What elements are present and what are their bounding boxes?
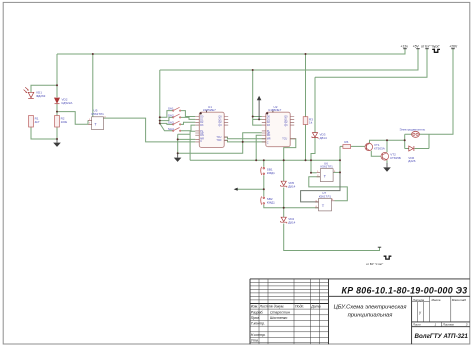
counter U1	[199, 112, 224, 147]
wire node C to node D to U2 pin 11	[178, 133, 262, 154]
wire VT2 emitter to ground	[386, 160, 388, 163]
svg-text:Шостенко: Шостенко	[270, 316, 287, 320]
svg-text:SA2: SA2	[168, 113, 174, 117]
svg-text:Дата: Дата	[310, 305, 320, 309]
svg-text:Д814: Д814	[288, 220, 295, 224]
svg-text:DN: DN	[267, 134, 271, 137]
svg-text:Д226: Д226	[408, 159, 415, 163]
svg-text:КТ503А: КТ503А	[374, 146, 386, 150]
svg-text:Лист: Лист	[412, 323, 421, 327]
wire +26V rail	[429, 49, 453, 135]
svg-text:C: C	[267, 141, 269, 144]
wire VT1 emitter to VT2 base	[371, 151, 381, 157]
junction U2 pin 15	[252, 116, 254, 118]
wire U2 pin 15 tap	[253, 116, 262, 118]
svg-text:у: у	[418, 311, 421, 315]
svg-text:КМД1: КМД1	[267, 171, 275, 175]
button SB1	[261, 167, 265, 175]
svg-text:DN: DN	[200, 134, 204, 137]
node B junction	[56, 111, 58, 113]
photodiode VD1	[24, 87, 34, 98]
wire node B to U5 input	[57, 112, 88, 125]
svg-text:100k: 100k	[61, 120, 68, 124]
wire U1 TCU to U2 UP	[224, 137, 266, 139]
wire motor node right	[428, 134, 430, 148]
svg-text:4k7: 4k7	[35, 120, 40, 124]
svg-text:КТ815Б: КТ815Б	[390, 156, 401, 160]
svg-text:+26V: +26V	[449, 44, 458, 48]
wire U2 pin 1 tap	[253, 118, 262, 120]
wire motor node left	[404, 134, 406, 148]
pin stubs U6	[317, 173, 321, 177]
wire R1 bottom	[31, 127, 57, 139]
svg-text:Изм.: Изм.	[251, 305, 258, 309]
pin stubs U7	[315, 201, 335, 208]
svg-text:+12v: +12v	[401, 44, 409, 48]
svg-text:Масса: Масса	[432, 298, 441, 302]
svg-text:К561ТЛ1: К561ТЛ1	[319, 194, 332, 198]
svg-text:КД522А: КД522А	[62, 101, 74, 105]
wire R6 to VT1 base	[351, 145, 365, 147]
wire SA3 to U1 pin 10	[180, 122, 195, 124]
switch SA2	[173, 114, 181, 118]
ground under VT2	[383, 163, 391, 172]
junction U6 pin 1	[310, 172, 312, 174]
resistor R3	[303, 117, 308, 125]
pin stubs U2 left	[262, 117, 266, 142]
junction VD5	[283, 159, 285, 161]
svg-text:К561ТЛ1: К561ТЛ1	[321, 165, 334, 169]
svg-text:Утв.: Утв.	[251, 339, 259, 343]
svg-text:R6: R6	[344, 140, 348, 144]
wire VD3 to U6 pin 1	[311, 137, 317, 173]
wire U2 pin 13 loop	[284, 139, 296, 161]
node D junction	[177, 152, 179, 154]
svg-text:К155ИЕ7: К155ИЕ7	[269, 108, 282, 112]
junction U6 out	[339, 171, 341, 173]
wire +12V rail	[57, 49, 405, 54]
node E junction	[263, 188, 265, 190]
svg-text:Пров.: Пров.	[251, 316, 260, 320]
junction R3 rail	[305, 159, 307, 161]
junction power arrow	[258, 118, 260, 120]
wire VD4 to stop terminal	[284, 224, 380, 251]
svg-text:Д814: Д814	[320, 136, 327, 140]
wire U6 output to U7 pin 1 dark	[301, 172, 340, 202]
wire SB1 to SB2	[263, 175, 265, 196]
svg-text:Н.контр.: Н.контр.	[251, 333, 266, 337]
svg-text:C: C	[200, 140, 202, 143]
pulse glyph stop	[384, 256, 392, 259]
junction U1-U2 link	[242, 141, 244, 143]
switch SA1	[173, 107, 181, 111]
wire R6 lead left	[340, 145, 343, 147]
wire U6 output stub	[333, 171, 340, 173]
trigger U6	[320, 169, 333, 182]
junction motor left	[404, 139, 406, 141]
wire SA common bus	[160, 70, 173, 131]
title block main border	[250, 279, 470, 344]
svg-text:КР 806-10.1-80-19-00-000 Э3: КР 806-10.1-80-19-00-000 Э3	[342, 285, 468, 295]
transistor VT2	[381, 153, 389, 161]
button SB2	[261, 196, 265, 204]
svg-text:Т.контр.: Т.контр.	[251, 322, 265, 326]
svg-text:SA3: SA3	[168, 120, 174, 124]
wire node A branch to VD1	[31, 85, 57, 92]
node F junction	[283, 207, 285, 209]
motor M1	[412, 131, 420, 137]
wire U5 power	[92, 54, 94, 117]
svg-text:SA1: SA1	[168, 107, 174, 111]
junction +5V drop	[252, 69, 254, 71]
wire node E to BU arrow	[238, 188, 264, 190]
zener VD4	[281, 217, 287, 223]
wire U5 input pins tie	[87, 120, 89, 124]
wire U1 pin 14 to rail	[190, 131, 195, 160]
pin stubs U1 left	[195, 117, 199, 142]
ground under R2	[53, 139, 61, 147]
svg-text:Подп.: Подп.	[295, 305, 304, 309]
svg-text:Лист: Лист	[259, 305, 269, 309]
svg-text:Старостин: Старостин	[270, 310, 290, 314]
svg-text:1k: 1k	[309, 121, 313, 125]
terminal start pulse	[425, 48, 428, 50]
ground node C	[174, 153, 182, 162]
zener VD3	[312, 133, 318, 139]
svg-text:ЦБУ.Схема электрическая: ЦБУ.Схема электрическая	[334, 305, 407, 311]
wire R3 top	[305, 54, 307, 117]
svg-text:ВолгГТУ АТП-321: ВолгГТУ АТП-321	[415, 333, 469, 340]
wire SB1 top	[263, 160, 265, 167]
wire VT2 collector	[386, 140, 388, 152]
wire U1 TCD to U2 DN	[224, 140, 266, 142]
wire +5V rail	[160, 49, 418, 70]
svg-text:принципиальная: принципиальная	[348, 313, 393, 319]
wire U6 pin 2 to U7 output	[309, 177, 348, 201]
wire VD2 to R2	[56, 104, 58, 116]
wire +5V drop to U2	[253, 70, 262, 125]
wire motor leads	[405, 133, 429, 135]
svg-text:№ докум.: № докум.	[269, 305, 284, 309]
junction U6 feed	[310, 159, 312, 161]
junction rail right	[339, 159, 341, 161]
terminal +12V	[403, 48, 406, 50]
svg-text:Масштаб: Масштаб	[452, 298, 466, 302]
resistor R6	[343, 145, 351, 149]
pin labels U1	[200, 115, 222, 143]
arrow to BU	[234, 188, 238, 191]
terminal +26V	[451, 48, 454, 50]
node A junction	[56, 84, 58, 86]
svg-text:К155ИЕ7: К155ИЕ7	[203, 108, 216, 112]
wire U6 output to R6	[339, 146, 341, 172]
svg-text:КМД1: КМД1	[267, 201, 275, 205]
wire R2 bottom	[56, 127, 58, 139]
svg-text:TCU: TCU	[282, 138, 287, 141]
svg-text:MR: MR	[267, 138, 271, 141]
svg-text:Д814: Д814	[288, 184, 295, 188]
junction SA1	[159, 116, 161, 118]
wire U5 output to U1	[103, 118, 195, 142]
svg-text:Литера: Литера	[412, 298, 425, 302]
wire VD5 to node F	[283, 188, 285, 218]
junction rail SB	[255, 159, 257, 161]
switch SA3	[173, 121, 181, 125]
svg-text:Листов: Листов	[442, 323, 454, 327]
pin stubs U5	[88, 120, 92, 124]
wire VD6 leads	[405, 148, 429, 150]
wire SA1 to U1 pin 15	[180, 111, 195, 117]
wire VD2 anode	[56, 54, 58, 97]
terminal stop pulse	[378, 246, 381, 248]
wire SA4 to U1 pin 9	[180, 125, 195, 131]
svg-text:К561ТЛ1: К561ТЛ1	[92, 112, 105, 116]
junction R3 top	[305, 53, 307, 55]
zener VD5	[281, 181, 287, 187]
wire SB2 to U7 pin 2	[264, 205, 319, 208]
pin 1 mark U2	[266, 112, 268, 114]
wire start rail	[315, 49, 427, 77]
junction SA3	[159, 122, 161, 124]
pulse glyph start	[432, 49, 440, 52]
svg-text:от БУ "пуск": от БУ "пуск"	[421, 44, 440, 48]
svg-text:TCD: TCD	[216, 139, 221, 142]
svg-text:SA4: SA4	[168, 127, 174, 131]
trigger U5	[92, 117, 104, 130]
wire R3 bottom	[305, 125, 307, 161]
svg-text:ФД263: ФД263	[36, 94, 46, 98]
wire node C to U1 pin 4	[178, 138, 196, 140]
resistor R1	[29, 116, 34, 128]
transistor VT1	[365, 143, 373, 151]
terminal +5V	[416, 48, 419, 50]
node C junction	[177, 138, 179, 140]
junction R2 ground	[56, 138, 58, 140]
svg-text:Электродвигатель: Электродвигатель	[400, 128, 426, 132]
power arrow U2	[257, 96, 262, 120]
switch SA4	[173, 128, 181, 132]
title block thin grid	[250, 279, 451, 344]
wire U2 pin 14 feed	[256, 135, 262, 160]
wire start drop to VD3	[314, 77, 316, 132]
wire node C link	[178, 134, 190, 153]
wire bottom net rail	[190, 159, 340, 161]
wire VT1 collector to motor node	[370, 140, 405, 143]
svg-text:Разраб.: Разраб.	[251, 310, 264, 314]
junction VT2 collector	[386, 139, 388, 141]
svg-text:+5V: +5V	[413, 44, 420, 48]
diode VD2	[55, 98, 60, 104]
resistor R2	[55, 116, 60, 128]
pin 1 mark U1	[200, 112, 202, 114]
counter U2	[266, 112, 290, 147]
junction SA2	[159, 120, 161, 122]
pin labels U2	[267, 115, 288, 144]
wire SA2 to U1 pin 1	[180, 117, 195, 119]
junction U5 power	[92, 53, 94, 55]
wire SA2 left	[160, 117, 173, 120]
junction SB1	[263, 159, 265, 161]
wire SA3 left	[160, 123, 173, 124]
wire SA1 left	[160, 111, 173, 118]
diode VD6	[409, 146, 414, 151]
pin stubs U2 right	[290, 117, 296, 139]
pin stubs U1 right	[224, 117, 228, 141]
trigger U7	[319, 199, 332, 211]
svg-text:от БУ "стоп": от БУ "стоп"	[366, 262, 383, 266]
wire rail to VD5	[283, 160, 285, 181]
